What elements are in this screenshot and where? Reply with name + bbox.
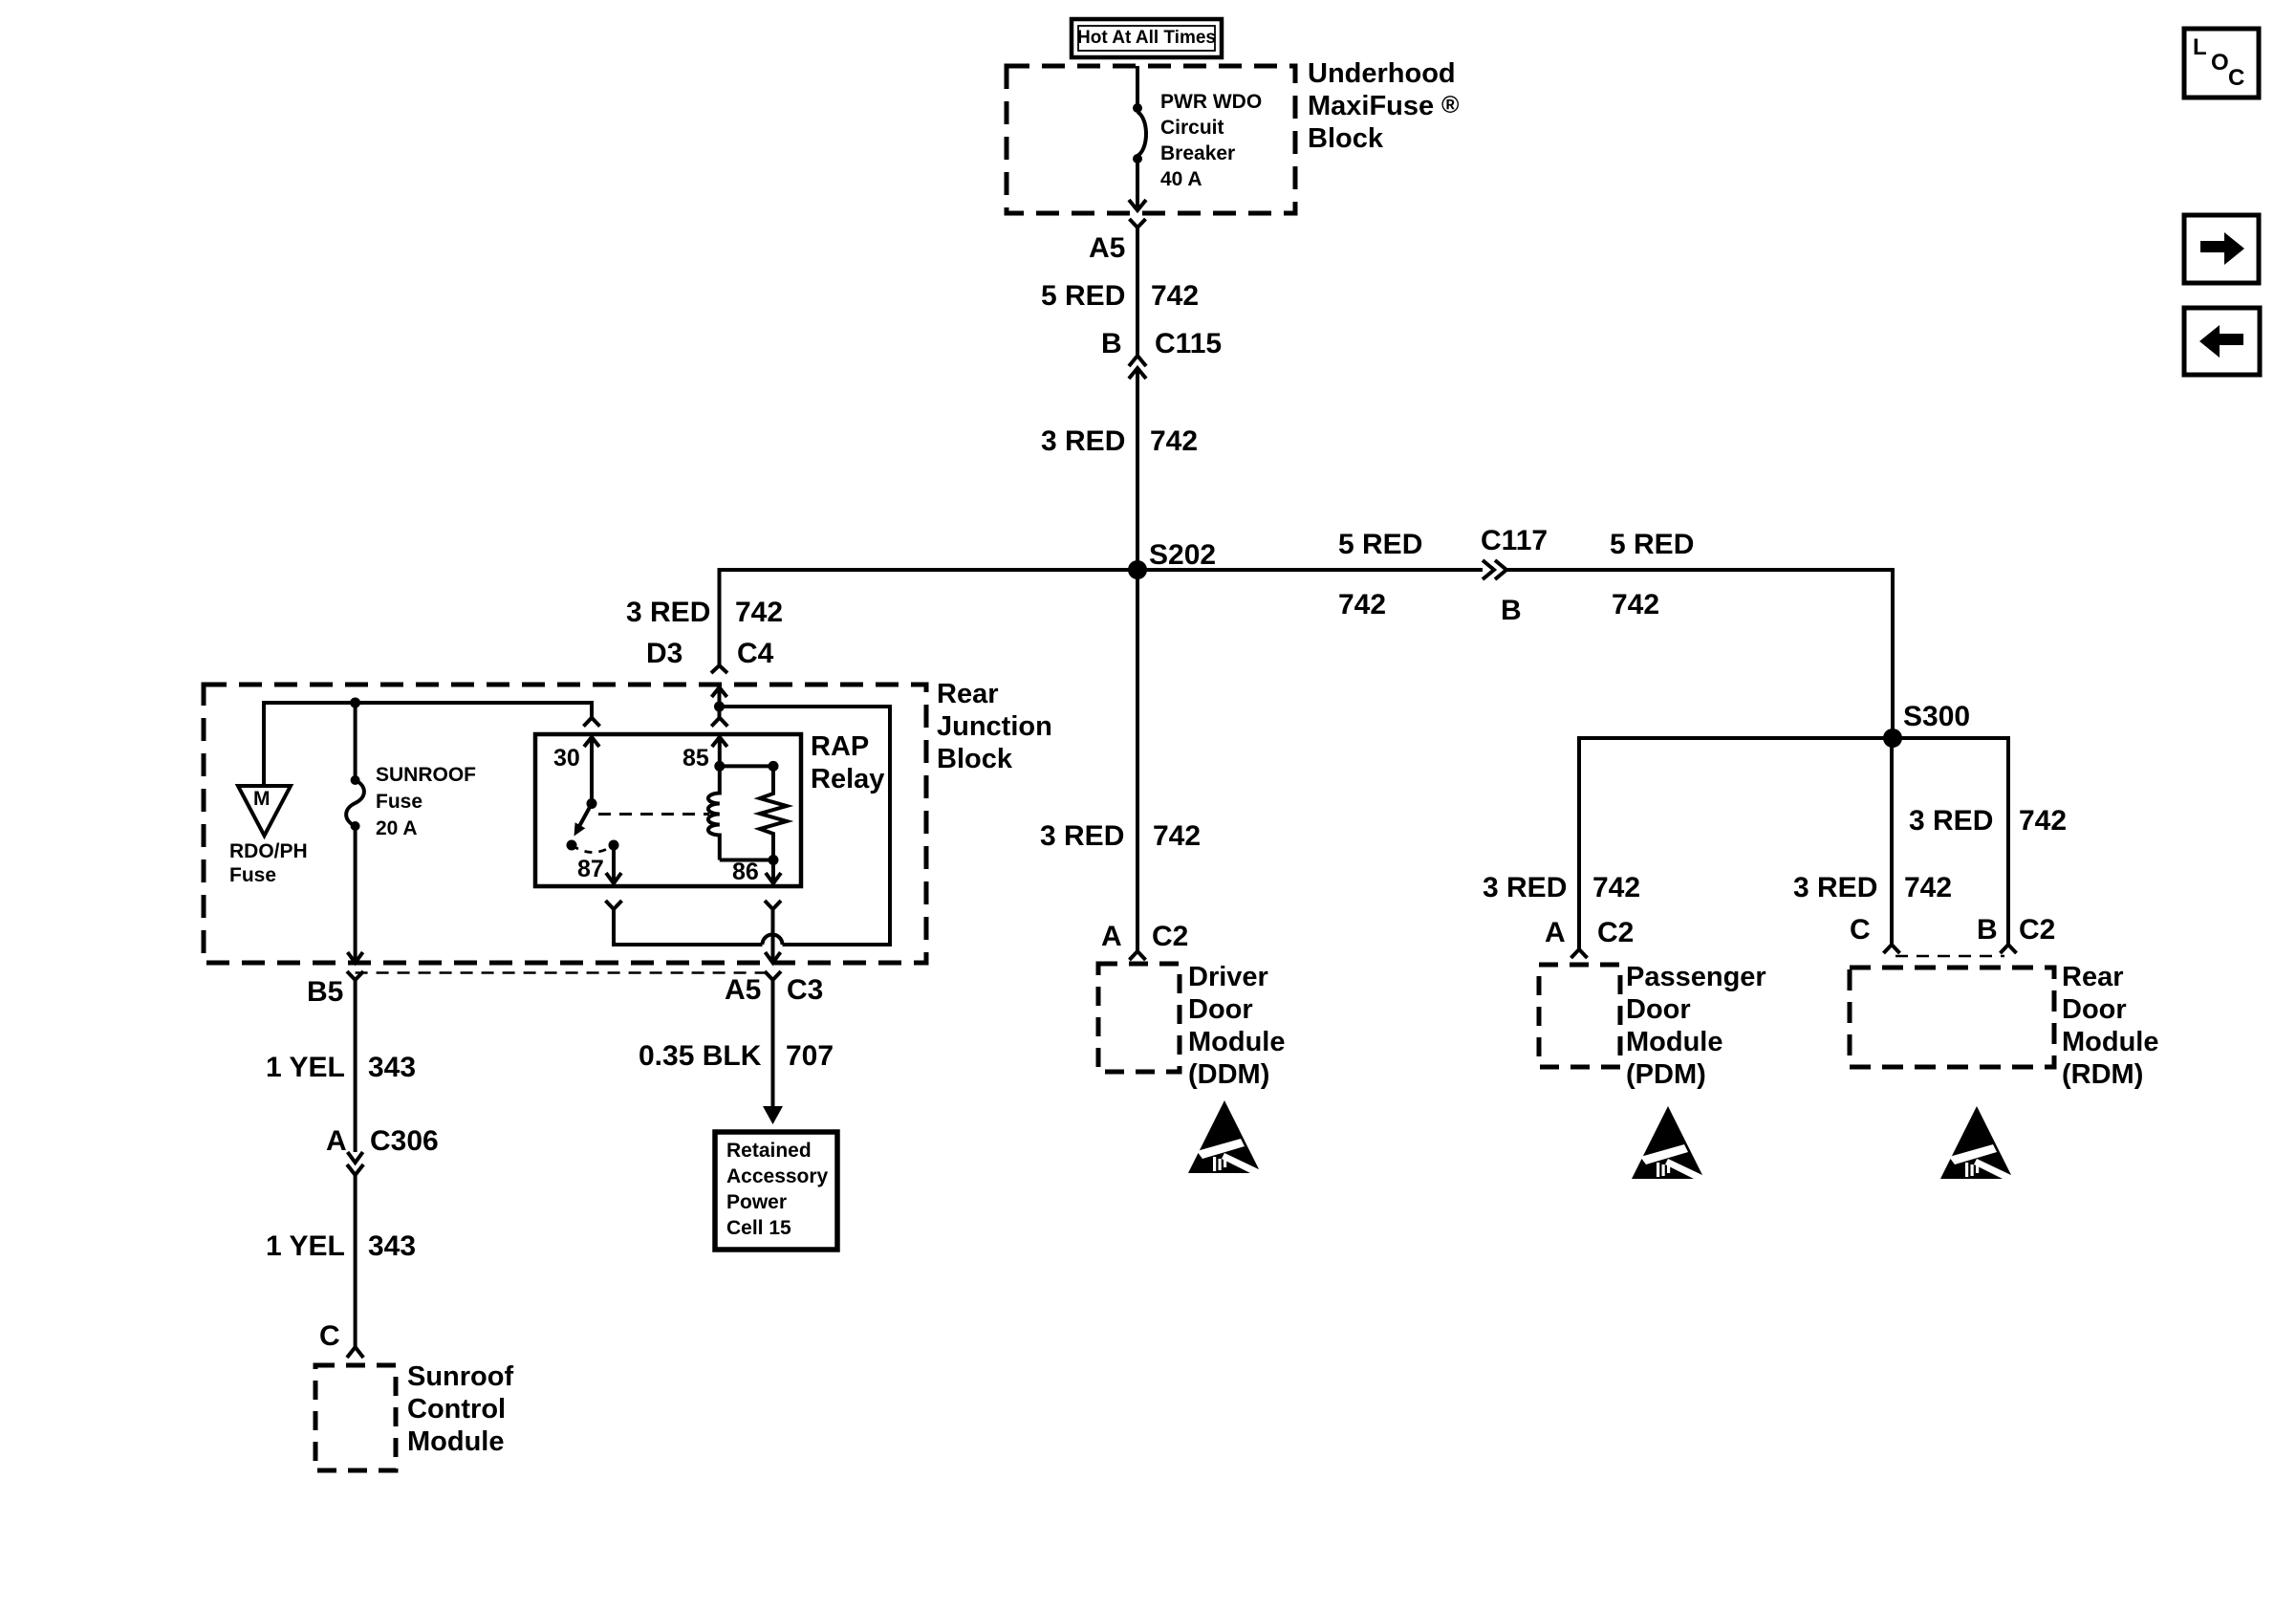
label C2 at DDM (1152, 923, 1188, 951)
label C306 (370, 1127, 439, 1156)
wire B5 to C306 (354, 980, 357, 1152)
label RAP Relay (811, 730, 884, 795)
wire fuse tap down to sunroof fuse (354, 703, 357, 780)
main horizontal wire left of S202 (720, 570, 1484, 664)
wire branch from dot to right loop (720, 707, 891, 945)
wire S300 right branch to RDM pin B (1893, 738, 2008, 945)
label 742 at DDM (1153, 822, 1201, 851)
label Underhood MaxiFuse Block (1308, 57, 1456, 155)
sunroof fuse top dot (351, 775, 360, 785)
label 3 RED at DDM (1040, 822, 1124, 851)
label 742 upper (1151, 282, 1199, 311)
label 3 RED at D3 (626, 598, 710, 627)
label 5 RED 742 upper (1041, 282, 1125, 311)
thin dashed connector face line RDM (1895, 955, 2004, 958)
connector Y below relay pin 86 (765, 901, 781, 909)
label relay pin 87 (577, 858, 604, 881)
label RDO/PH Fuse (229, 839, 308, 887)
label 3 RED at PDM (1483, 874, 1567, 903)
label C2 at RDM (2019, 916, 2055, 945)
splice S202 junction dot (1128, 560, 1147, 579)
label 3 RED at RDM C (1793, 874, 1877, 903)
relay switch contact dot 87 (609, 840, 619, 851)
connector chevron at sunroof module pin C (347, 1347, 363, 1358)
label 343 upper (368, 1054, 416, 1082)
thin dashed connector face line below RJB (356, 971, 773, 974)
connector C306 arrow chevron (348, 1152, 363, 1163)
label 742 at RDM C (1904, 874, 1952, 903)
label Driver Door Module DDM (1188, 961, 1286, 1091)
connector chevron at RDM pin C (1884, 945, 1900, 953)
RAP Relay box (535, 734, 801, 886)
wire stub dot to pin85 chevron (718, 711, 722, 717)
label 0.35 BLK (639, 1042, 761, 1071)
relay coil top dot (714, 761, 725, 772)
circuit breaker bottom terminal dot (1133, 154, 1142, 163)
connector Y at B5 (347, 971, 363, 980)
label 742 right branch S300 (2019, 807, 2067, 836)
splice S300 junction dot (1883, 729, 1902, 748)
label 3 RED right branch S300 (1909, 807, 1993, 836)
wire pin 86 down through hop to RJB exit (771, 909, 775, 963)
wire coil top link (720, 764, 773, 768)
connector C115 lower arrow chevron (1129, 368, 1146, 379)
label Passenger Door Module PDM (1626, 961, 1766, 1091)
relay pin 30 arrow and wire (584, 737, 599, 804)
ESD symbol at PDM (1632, 1106, 1706, 1184)
wire C115 to S202 (1136, 368, 1139, 570)
label relay pin 30 (553, 747, 580, 771)
connector C115 upper chevron (1129, 356, 1146, 366)
label M in fuse triangle (253, 789, 271, 809)
relay resistor element (760, 766, 787, 859)
label relay pin 85 (682, 747, 709, 771)
wire C117 to S300 corner (1506, 570, 1893, 738)
label A5 at C3 (725, 976, 761, 1005)
relay switch pivot dot (587, 798, 597, 809)
label 742 right of C117 (1612, 591, 1659, 620)
label C117 (1481, 527, 1548, 555)
left arrow glyph (2199, 325, 2243, 358)
label B C115 (1101, 330, 1122, 359)
label A at DDM (1101, 923, 1122, 951)
label B5 (307, 978, 343, 1007)
Underhood MaxiFuse Block dashed box (1007, 66, 1295, 213)
label SUNROOF Fuse 20 A (376, 762, 476, 842)
label 742 trunk (1150, 427, 1198, 456)
label 742 at D3 (735, 598, 783, 627)
connector C117 left chevron (1483, 560, 1494, 579)
label B at C117 (1501, 597, 1522, 625)
Sunroof Control Module dashed box (315, 1365, 396, 1470)
connector chevron above relay pin 85 (711, 718, 727, 727)
label 742 left of C117 (1338, 591, 1386, 620)
label C of LOC icon (2228, 67, 2244, 90)
sunroof fuse S element (346, 780, 364, 826)
LOC page icon box (2184, 29, 2259, 98)
sunroof fuse bottom dot (351, 821, 360, 831)
main horizontal wire right of S202 to C117 (1137, 568, 1483, 572)
wire hop over pin 86 wire (763, 935, 783, 946)
label relay pin 86 (732, 860, 759, 884)
relay pin 85 arrow and wire (712, 737, 727, 766)
Hot At All Times box (1072, 19, 1222, 57)
connector C306 lower Y chevron (347, 1164, 363, 1175)
label Rear Junction Block (937, 678, 1052, 775)
connector chevron at RJB terminal D3 C4 (711, 665, 727, 673)
relay switch blade with arrowhead (577, 804, 592, 831)
label D3 (646, 640, 682, 668)
connector chevron at DDM pin A C2 (1130, 951, 1146, 960)
Rear Door Module dashed box (1850, 968, 2054, 1067)
Rear Junction Block dashed box (204, 685, 926, 963)
label A at C306 (326, 1127, 347, 1156)
arrowhead down at MaxiFuse block bottom edge (1129, 200, 1146, 210)
wire S202 down to DDM (1136, 570, 1139, 951)
label 3 RED 742 trunk (1041, 427, 1125, 456)
wire C306 to sunroof control module (354, 1175, 357, 1347)
wire coil bottom link (720, 859, 773, 862)
relay resistor top dot (769, 761, 779, 772)
label A5 at MaxiFuse (1089, 234, 1125, 263)
relay pin 86 wire and arrow (766, 860, 781, 884)
circuit breaker arc element (1137, 112, 1146, 156)
label 1 YEL upper (266, 1054, 345, 1082)
wire A5 C3 down to RAP arrow (771, 980, 775, 1107)
fuse feed horizontal wire in RJB (264, 703, 592, 786)
connector chevron at RDM pin B (2001, 945, 2017, 953)
label O of LOC icon (2211, 52, 2229, 75)
label Sunroof Control Module (407, 1360, 513, 1458)
label C2 at PDM (1597, 919, 1634, 947)
junction dot inside RJB top (714, 702, 725, 712)
dashed actuating linkage line (598, 813, 709, 816)
right arrow glyph (2200, 232, 2244, 265)
connector Y at terminal A5 (1130, 219, 1146, 228)
relay switch contact dot 87a (567, 840, 577, 851)
label 707 (786, 1042, 834, 1071)
label A at PDM (1545, 919, 1566, 947)
label 1 YEL lower (266, 1232, 345, 1261)
label 343 lower (368, 1232, 416, 1261)
label C4 (737, 640, 773, 668)
relay coil bottom junction dot (769, 855, 779, 865)
connector C117 right chevron (1495, 560, 1506, 579)
arrow up into RJB at C4 (712, 687, 727, 707)
label L of LOC icon (2193, 36, 2207, 59)
label 742 at PDM (1592, 874, 1640, 903)
label registered trademark (1441, 94, 1459, 118)
ESD symbol at RDM (1940, 1106, 2015, 1184)
wire from Hot At All Times into block (1136, 66, 1139, 108)
right arrow icon box (2184, 215, 2259, 283)
label Retained Accessory Power Cell 15 (726, 1138, 828, 1241)
connector Y below relay pin 87 (606, 901, 622, 909)
label C115 (1155, 330, 1222, 359)
label 5 RED right of C117 (1610, 531, 1694, 559)
solid arrowhead into RAP box (763, 1106, 783, 1124)
label S300 (1903, 703, 1970, 731)
label C at RDM (1850, 916, 1871, 945)
RDO/PH fuse M triangle (238, 786, 291, 836)
label Rear Door Module RDM (2062, 961, 2159, 1091)
wire sunroof fuse to RJB bottom edge (354, 826, 357, 963)
connector Y at A5 C3 (765, 971, 781, 980)
connector chevron above relay pin 30 (584, 718, 600, 727)
wire S300 down to RDM pin C (1890, 738, 1894, 945)
label 5 RED left of C117 (1338, 531, 1422, 559)
label PWR WDO Circuit Breaker 40 A (1160, 89, 1262, 192)
Passenger Door Module dashed box (1539, 965, 1620, 1067)
relay coil element (708, 766, 720, 859)
dashed travel arc between contacts (572, 845, 614, 853)
junction dot at sunroof fuse tap (350, 698, 360, 708)
arrowhead down at RJB bottom edge A5 C3 (766, 952, 781, 963)
label S202 (1149, 541, 1216, 570)
connector chevron at PDM pin A C2 (1571, 949, 1588, 958)
label B at RDM (1977, 916, 1998, 945)
Driver Door Module dashed box (1098, 964, 1180, 1072)
wire S300 left branch to PDM (1579, 738, 1893, 949)
wire A5 to C115 (1136, 228, 1139, 356)
ESD symbol at DDM (1188, 1100, 1263, 1178)
Retained Accessory Power box (715, 1132, 837, 1250)
left arrow icon box (2184, 308, 2260, 375)
label C3 (787, 976, 823, 1005)
arrowhead down at RJB bottom edge B5 (348, 952, 363, 963)
wire from breaker to block edge (1136, 159, 1139, 210)
circuit breaker CB top terminal dot (1133, 103, 1142, 113)
relay pin 87 wire and arrow (606, 845, 621, 883)
label C at sunroof module (319, 1322, 340, 1351)
label Hot At All Times (1072, 26, 1222, 51)
wire bottom loop from hop to pin 87 wire (614, 909, 763, 945)
